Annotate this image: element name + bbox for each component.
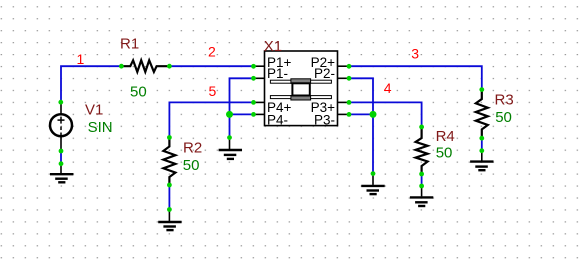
svg-text:P3-: P3- — [314, 113, 335, 128]
svg-text:50: 50 — [436, 145, 453, 162]
svg-text:P4-: P4- — [267, 113, 288, 128]
svg-text:R3: R3 — [495, 91, 514, 108]
svg-text:50: 50 — [495, 109, 512, 126]
svg-text:V1: V1 — [85, 102, 103, 119]
svg-text:5: 5 — [209, 83, 217, 99]
svg-text:4: 4 — [384, 80, 392, 96]
svg-text:R1: R1 — [120, 35, 139, 52]
svg-text:3: 3 — [411, 45, 419, 61]
svg-text:50: 50 — [183, 157, 200, 174]
svg-text:2: 2 — [208, 43, 216, 59]
svg-text:P2-: P2- — [314, 66, 335, 81]
svg-text:X1: X1 — [264, 38, 282, 55]
svg-text:1: 1 — [77, 51, 85, 67]
svg-text:P1-: P1- — [267, 66, 288, 81]
svg-text:50: 50 — [130, 83, 147, 100]
svg-text:R2: R2 — [183, 139, 202, 156]
svg-text:R4: R4 — [436, 128, 455, 145]
svg-text:SIN: SIN — [88, 119, 113, 136]
